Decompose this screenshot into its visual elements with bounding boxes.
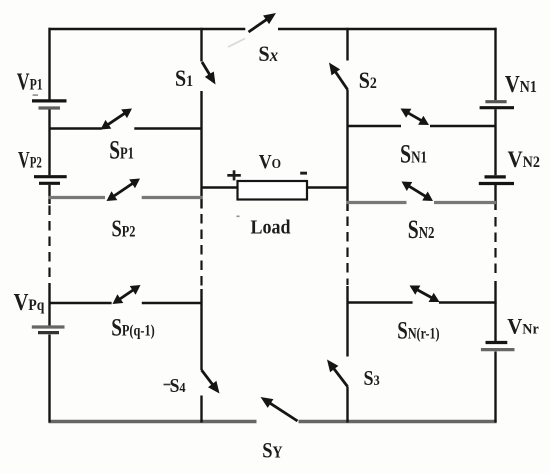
wire right bus segment 5 bbox=[494, 352, 496, 423]
wire mid-right bus dashed segment bbox=[346, 217, 348, 286]
battery VP1 bbox=[32, 101, 67, 108]
label VPq bbox=[14, 289, 45, 316]
scan artifact minus under VP1 bbox=[33, 94, 38, 96]
wire bottom bus left segment bbox=[49, 420, 257, 423]
battery VN2 bbox=[479, 177, 514, 184]
wire SP1 row left segment bbox=[49, 127, 102, 130]
wire right bus segment 3 bbox=[494, 185, 496, 210]
wire SN1 row left segment bbox=[347, 125, 402, 128]
wire top bus right segment bbox=[278, 28, 497, 31]
label SP(q-1) bbox=[111, 313, 155, 341]
wire right bus dashed segment bbox=[494, 217, 496, 279]
battery VPq bbox=[32, 327, 65, 333]
wire SN2 row left segment bbox=[347, 201, 407, 204]
switch S2 bbox=[329, 63, 348, 90]
wire SN(r-1) row left segment bbox=[347, 301, 413, 304]
label SN(r-1) bbox=[397, 316, 440, 344]
wire mid-right bus segment 3 bbox=[346, 286, 348, 357]
svg-text:Load: Load bbox=[251, 216, 291, 238]
wire load left lead bbox=[202, 186, 238, 189]
label VNr bbox=[507, 314, 539, 339]
wire SP(q-1) row left segment bbox=[49, 302, 112, 305]
switch SY bbox=[261, 397, 298, 421]
switch SN2 bbox=[402, 182, 434, 202]
label VN1 bbox=[505, 70, 537, 97]
wire mid-right bus segment 2 bbox=[346, 90, 348, 212]
label VP1 bbox=[17, 68, 43, 95]
switch S4 bbox=[202, 370, 220, 394]
svg-text:S4: S4 bbox=[170, 375, 186, 397]
label SP2 bbox=[112, 215, 136, 242]
wire mid-right bus segment 4 bbox=[346, 387, 348, 423]
label S3 bbox=[364, 368, 381, 391]
battery VP2 bbox=[34, 177, 67, 184]
label SN2 bbox=[408, 214, 435, 243]
wire left bus segment 1 bbox=[48, 28, 50, 100]
scan artifact near SX bbox=[228, 39, 245, 48]
label plus polarity bbox=[227, 170, 241, 180]
label SY bbox=[262, 439, 282, 463]
wire SN1 row right segment bbox=[430, 125, 496, 128]
scan artifact dot near Load bbox=[237, 216, 240, 218]
label S4 dash artifact bbox=[164, 384, 171, 386]
wire left bus segment 2 bbox=[48, 110, 50, 176]
wire mid-right bus segment 1 bbox=[346, 28, 348, 61]
switch SP2 bbox=[107, 179, 141, 202]
label VO bbox=[259, 151, 281, 173]
label minus polarity bbox=[300, 172, 307, 175]
wire SP2 row right segment bbox=[142, 196, 203, 199]
label SX bbox=[258, 41, 278, 66]
wire SP2 row left segment bbox=[49, 196, 106, 199]
switch SN1 bbox=[401, 109, 430, 126]
wire mid-left bus segment 1 bbox=[200, 28, 202, 62]
wire mid-left bus segment 4 bbox=[200, 396, 202, 423]
switch S1 bbox=[202, 62, 216, 85]
wire right bus segment 1 bbox=[494, 28, 496, 100]
wire left bus segment 5 bbox=[48, 335, 50, 423]
wire SP(q-1) row right segment bbox=[142, 302, 203, 305]
label VP2 bbox=[18, 148, 42, 173]
wire SN(r-1) row right segment bbox=[439, 301, 497, 304]
label S2 bbox=[359, 68, 377, 94]
switch SX bbox=[249, 13, 277, 32]
switch SP1 bbox=[101, 109, 133, 130]
label S1 bbox=[175, 66, 193, 92]
wire mid-left bus dashed segment bbox=[200, 214, 202, 288]
label SN1 bbox=[400, 140, 427, 169]
wire left bus segment 3 bbox=[48, 185, 50, 204]
battery VN1 bbox=[480, 102, 514, 108]
svg-text:Sx: Sx bbox=[258, 41, 278, 66]
switch S3 bbox=[327, 360, 348, 387]
svg-text:SY: SY bbox=[262, 439, 282, 463]
switch SN(r-1) bbox=[410, 286, 440, 303]
wire SP1 row right segment bbox=[134, 127, 202, 130]
wire right bus segment 2 bbox=[494, 109, 496, 175]
label VN2 bbox=[508, 146, 540, 172]
wire left bus segment 4 bbox=[48, 283, 50, 326]
wire right bus segment 4 bbox=[494, 281, 496, 341]
wire SN2 row right segment bbox=[434, 201, 496, 204]
wire load right lead bbox=[307, 186, 349, 189]
svg-text:S3: S3 bbox=[364, 368, 381, 391]
switch SP(q-1) bbox=[113, 285, 141, 304]
battery VNr bbox=[481, 343, 515, 350]
label SP1 bbox=[109, 136, 134, 164]
wire left bus dashed segment bbox=[48, 206, 50, 282]
label S4 bbox=[170, 375, 186, 397]
wire bottom bus right segment bbox=[299, 420, 497, 423]
wire top bus left segment bbox=[49, 28, 246, 31]
resistor Load bbox=[238, 181, 308, 200]
wire mid-left bus segment 2 bbox=[200, 91, 202, 209]
label Load bbox=[251, 216, 291, 238]
wire mid-left bus segment 3 bbox=[200, 289, 202, 370]
